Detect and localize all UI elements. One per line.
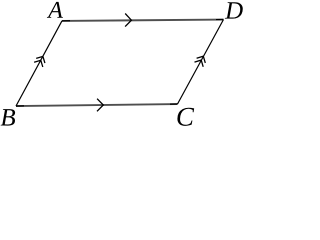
arrow mark on BC [97, 99, 103, 112]
wire AD end stub at D [216, 19, 224, 21]
wire side AD (top) [62, 20, 224, 21]
double arrow mark on AB (chevron 2) [34, 60, 43, 67]
wire AD end stub at A [62, 20, 70, 22]
wire side AB (left) [16, 21, 62, 106]
arrow mark on AD [125, 14, 131, 27]
double arrow mark on DC (chevron 1) [197, 56, 206, 63]
wire BC end stub at B [16, 105, 24, 107]
label vertex D [225, 2, 243, 18]
double arrow mark on AB (chevron 1) [36, 56, 45, 63]
wire side BC (bottom) [16, 104, 178, 106]
double arrow mark on DC (chevron 2) [195, 60, 204, 67]
wire BC end stub at C [170, 103, 178, 105]
wire side DC (right) [178, 20, 224, 105]
label vertex B [1, 109, 15, 125]
label vertex A [47, 2, 63, 18]
label vertex C [177, 108, 194, 126]
